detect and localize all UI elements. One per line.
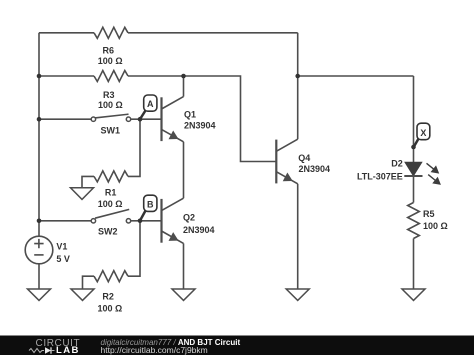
svg-text:100 Ω: 100 Ω (98, 56, 123, 66)
transistor Q2 (162, 198, 184, 243)
ground under Q4 (286, 289, 309, 300)
wire SW2 row from rail (39, 220, 91, 222)
svg-text:Q2: Q2 (183, 213, 195, 223)
junction node B-R2 (138, 219, 143, 224)
svg-text:X: X (420, 128, 426, 138)
svg-text:R5: R5 (423, 209, 435, 219)
wire SW1 to Q1 base (131, 118, 162, 120)
ground under R2 (71, 289, 94, 300)
svg-text:V1: V1 (56, 242, 67, 252)
junction node X on LED wire (411, 145, 416, 150)
switch SW2 lever (95, 209, 129, 218)
voltage source V1 (25, 236, 53, 264)
wire node B junction down to R2 (128, 221, 140, 276)
svg-text:Q4: Q4 (298, 153, 310, 163)
wire SW2 to Q2 base (131, 220, 162, 222)
wire top from rail to R6 (39, 32, 94, 34)
switch SW1 lever (95, 114, 129, 118)
junction Q4 collector-LED wire (295, 74, 300, 79)
svg-text:100 Ω: 100 Ω (98, 100, 123, 110)
wire SW1 row from rail (39, 118, 91, 120)
resistor R2 (94, 271, 128, 282)
resistor R6 (94, 27, 128, 38)
wire R1 left lead to ground (82, 176, 94, 187)
svg-text:R1: R1 (105, 188, 117, 198)
ground under R1 (71, 188, 94, 200)
switch SW1 terminals (91, 117, 130, 121)
wire Q1 emitter down to Q2 collector (183, 142, 185, 198)
node A (140, 95, 157, 119)
svg-text:SW2: SW2 (98, 226, 118, 236)
svg-text:R2: R2 (102, 292, 114, 302)
svg-text:100 Ω: 100 Ω (423, 221, 448, 231)
junction rail-SW2 row (37, 219, 42, 224)
wire Q1 collector up to R3 row (183, 76, 185, 97)
wire D2 to R5 (413, 176, 415, 203)
svg-text:2N3904: 2N3904 (299, 164, 331, 174)
svg-text:R3: R3 (103, 90, 115, 100)
wire R6 junction to LED column (298, 75, 414, 77)
svg-text:B: B (147, 199, 154, 209)
svg-text:Q1: Q1 (184, 110, 196, 120)
footer logo diode (45, 347, 51, 353)
ground under Q2 (172, 289, 195, 300)
wire R6 to top-right corner (128, 32, 298, 34)
resistor R3 (94, 71, 128, 82)
junction rail-R3 row (37, 74, 42, 79)
footer logo resistor squiggle (29, 349, 44, 353)
junction node A-R1 (138, 117, 143, 122)
svg-text:A: A (147, 99, 154, 109)
wire node A junction down to R1 (128, 119, 140, 176)
node X (414, 123, 430, 147)
resistor R5 (408, 203, 420, 239)
wire V1 bottom to ground (38, 264, 40, 289)
junction rail-SW1 row (37, 117, 42, 122)
wire R2 left lead to ground (83, 276, 95, 289)
svg-text:100 Ω: 100 Ω (98, 199, 123, 209)
transistor Q4 (276, 139, 297, 184)
ground under V1 (28, 289, 51, 300)
transistor Q1 (162, 97, 184, 142)
svg-text:LTL-307EE: LTL-307EE (357, 171, 403, 181)
switch SW2 terminals (91, 219, 130, 223)
wire top-right corner down to Q4 collector (297, 33, 299, 139)
svg-text:2N3904: 2N3904 (183, 225, 215, 235)
wire Q4 emitter down to ground (297, 184, 299, 289)
ground under R5 (402, 289, 425, 300)
node B (140, 195, 157, 220)
svg-text:R6: R6 (103, 46, 115, 56)
resistor R1 (94, 171, 128, 182)
wire R3 to Q4 base corner (128, 76, 276, 162)
wire left rail (38, 33, 40, 236)
wire LED column down to D2 (413, 76, 415, 163)
svg-text:D2: D2 (391, 159, 403, 169)
svg-text:100 Ω: 100 Ω (98, 304, 123, 314)
wire Q2 emitter down to ground (183, 243, 185, 289)
svg-text:LAB: LAB (56, 345, 80, 355)
footer bar (0, 336, 474, 355)
svg-text:2N3904: 2N3904 (184, 121, 216, 131)
svg-text:5 V: 5 V (56, 254, 70, 264)
wire R5 to ground (413, 239, 415, 290)
LED D2 (404, 162, 440, 184)
svg-text:SW1: SW1 (101, 126, 121, 136)
svg-text:http://circuitlab.com/c7j9bkm: http://circuitlab.com/c7j9bkm (101, 345, 208, 355)
wire R3 row from rail (39, 75, 94, 77)
junction Q1 collector-R3 row (181, 74, 186, 79)
